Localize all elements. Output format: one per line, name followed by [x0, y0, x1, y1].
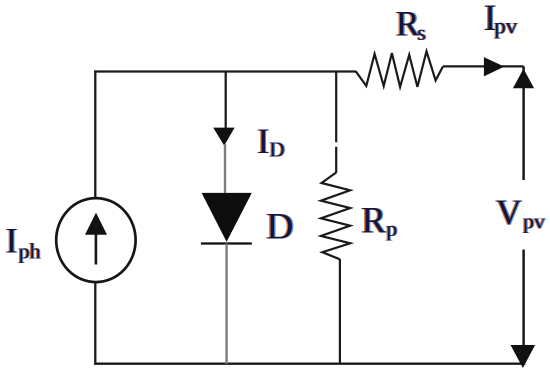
wire: Vpv lower segment with down arrow	[511, 250, 536, 369]
svg-text:R: R	[361, 201, 386, 242]
wire: Vpv upper segment with up arrow	[513, 66, 534, 180]
wire: left rail upper segment	[94, 70, 96, 198]
svg-text:D: D	[269, 138, 284, 162]
diode D cathode bar	[201, 242, 252, 244]
wire: bottom rail	[94, 363, 525, 365]
label Rp	[360, 201, 398, 242]
svg-text:pv: pv	[523, 208, 545, 233]
wire: left rail lower segment	[94, 282, 96, 365]
svg-text:s: s	[417, 20, 426, 45]
wire: top right segment	[443, 65, 524, 67]
arrow ID (diode current)	[213, 128, 234, 146]
svg-text:I: I	[6, 221, 18, 261]
resistor Rs zigzag	[356, 51, 443, 87]
label Rs	[395, 4, 428, 45]
wire: top rail	[94, 70, 356, 72]
wire: Rp branch bottom stub	[339, 259, 341, 364]
resistor Rp zigzag	[321, 173, 350, 260]
svg-text:p: p	[386, 216, 397, 241]
label Ipv	[483, 0, 519, 39]
wire: Rp branch top stub	[335, 72, 337, 173]
svg-text:pv: pv	[494, 14, 518, 39]
label Vpv	[495, 192, 547, 234]
wire: diode branch middle segment	[224, 144, 226, 194]
label Iph	[4, 221, 41, 264]
svg-text:ph: ph	[19, 238, 41, 263]
wire: diode branch top segment	[225, 72, 227, 130]
current source U1 circle	[56, 198, 135, 282]
label ID	[256, 121, 286, 162]
label D	[265, 207, 295, 248]
current source arrow	[85, 213, 107, 265]
svg-text:D: D	[266, 207, 293, 248]
svg-text:V: V	[496, 192, 522, 232]
wire: diode branch bottom segment	[225, 244, 227, 364]
arrow Ipv (output current)	[484, 57, 504, 76]
diode D triangle	[202, 193, 252, 242]
